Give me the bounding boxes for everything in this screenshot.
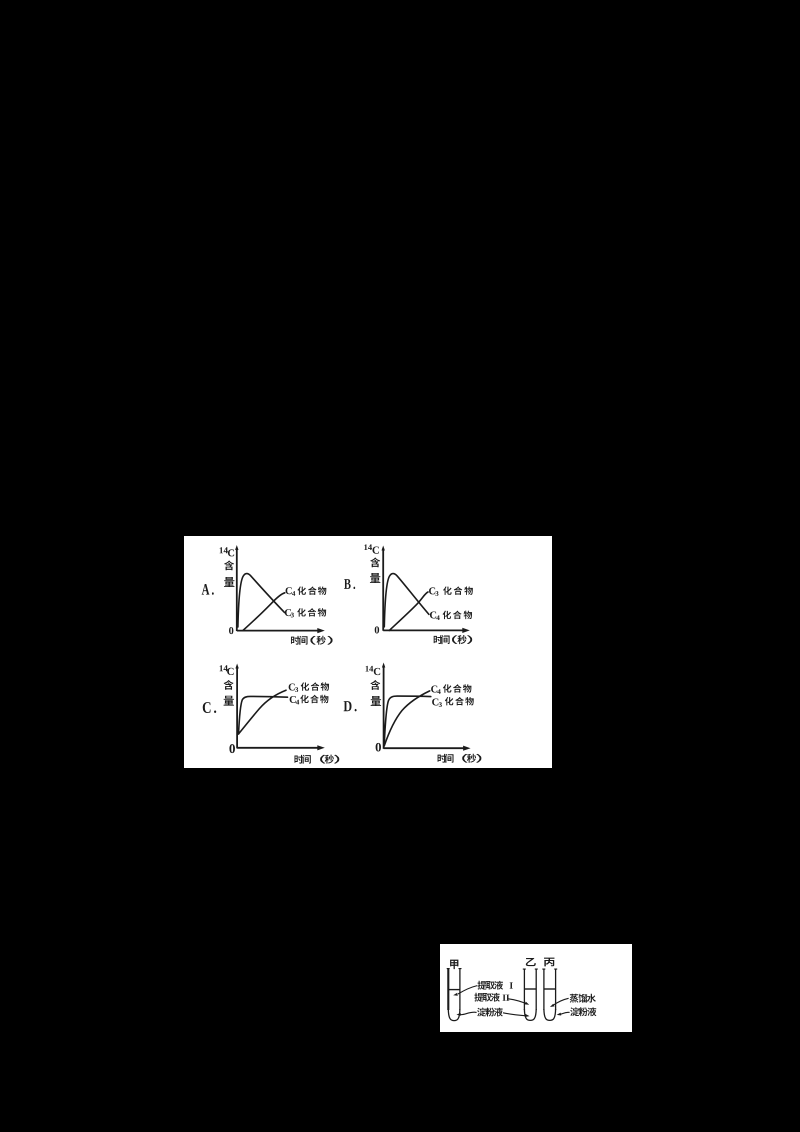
label 淀粉液 middle	[477, 1008, 503, 1017]
graph C y-axis title hanzi 量	[224, 696, 234, 706]
graph D curve label C3化合物	[432, 697, 474, 707]
graph A origin label 0	[229, 627, 233, 634]
graph D y-axis title hanzi 含	[370, 680, 380, 690]
leader line 提取液Ⅰ to tube 甲	[453, 986, 477, 996]
graph A x-axis line with right arrow	[237, 628, 325, 633]
test tube 丙 top rim ticks	[542, 968, 557, 970]
graph A x-axis title 时间（秒）	[291, 636, 333, 645]
leader line 淀粉液 to tube 丙 bottom	[557, 1012, 570, 1015]
graph D y-axis title: superscript 14 C	[366, 666, 381, 675]
white panel: three test tubes 甲乙丙	[440, 944, 632, 1032]
tube 乙 liquid level line	[524, 988, 536, 990]
label 蒸馏水	[570, 994, 596, 1003]
graph A y-axis title hanzi 含	[224, 560, 234, 570]
label 淀粉液 right	[570, 1007, 596, 1016]
graph D C4 compound slow rising curve	[384, 691, 430, 746]
graph C y-axis title: superscript 14 C	[220, 665, 234, 675]
test tube 甲 top rim ticks	[447, 968, 462, 970]
leader line 蒸馏水 to tube 丙	[550, 998, 569, 1007]
graph C curve label C4化合物	[290, 695, 329, 705]
graph B origin label 0	[375, 626, 379, 633]
graph D origin label 0	[376, 743, 381, 752]
graph B x-axis title 时间（秒）	[434, 635, 473, 644]
graph D y-axis title hanzi 量	[371, 696, 381, 706]
graph B x-axis line with right arrow	[383, 628, 470, 633]
tube 甲 liquid level line	[448, 989, 460, 991]
test tube 乙 rounded bottom	[524, 1009, 536, 1020]
graph A y-axis title hanzi 量	[224, 577, 234, 587]
graph B y-axis title hanzi 含	[370, 557, 380, 567]
graph C x-axis line with right arrow	[237, 745, 325, 750]
graph B curve label C4化合物	[430, 611, 472, 620]
graph A curve label C3化合物	[285, 608, 326, 617]
leader line 淀粉液 to tube 甲 bottom	[456, 1012, 476, 1016]
label 提取液Ⅰ	[477, 981, 512, 990]
graph C curve label C3化合物	[289, 682, 329, 692]
graph D x-axis line with right arrow	[384, 746, 471, 751]
graph C C3 compound slow rising curve	[239, 690, 287, 734]
graph B C3 compound rising curve	[389, 592, 428, 630]
graph B y-axis title: superscript 14 C	[364, 544, 379, 553]
graph D C3 compound fast-saturating curve	[384, 696, 431, 745]
test tube 乙 top rim ticks	[523, 968, 538, 970]
option letter D	[344, 701, 357, 711]
graph C C4 compound fast-saturating curve	[239, 696, 288, 734]
graph A y-axis title: superscript 14 C	[220, 547, 235, 556]
graph B curve label C3化合物	[429, 586, 473, 595]
test tube 甲 left wall	[447, 968, 449, 1010]
test tube 丙 left wall	[543, 969, 545, 1010]
leader line 提取液Ⅱ to tube 乙	[508, 999, 529, 1005]
graph C y-axis line with up arrow	[235, 664, 238, 749]
tube label 甲	[450, 960, 458, 970]
graph D curve label C4化合物	[431, 684, 471, 694]
test tube 甲 rounded bottom	[448, 1009, 460, 1021]
graph B y-axis line with up arrow	[382, 546, 385, 631]
graph D x-axis title 时间（秒）	[438, 754, 482, 763]
test tube 丙 rounded bottom	[544, 1009, 556, 1020]
graph C y-axis title hanzi 含	[224, 680, 234, 690]
graph C origin label 0	[229, 744, 235, 753]
white panel: four option graphs A-D	[184, 536, 552, 768]
test tube 乙 right wall	[535, 969, 537, 1010]
graph B C4 compound falling curve	[384, 574, 429, 627]
option letter C	[203, 702, 216, 713]
graph D y-axis line with up arrow	[382, 663, 385, 749]
graph C x-axis title 时间（秒）	[294, 755, 339, 764]
test tube 丙 right wall	[555, 969, 557, 1010]
graph A curve label C4化合物	[286, 586, 327, 595]
graph A C3 compound falling curve	[238, 574, 285, 627]
label 提取液Ⅱ	[474, 993, 509, 1002]
graph A y-axis line with up arrow	[235, 545, 238, 631]
option letter B	[344, 579, 355, 589]
test tube 乙 left wall	[523, 969, 525, 1010]
graph B y-axis title hanzi 量	[370, 573, 380, 583]
tube label 乙	[526, 958, 536, 966]
tube 丙 liquid level line	[544, 988, 556, 990]
tube label 丙	[544, 958, 554, 967]
graph A C4 compound rising curve	[243, 593, 285, 631]
option letter A	[202, 584, 214, 595]
leader line 淀粉液 to tube 乙 bottom	[503, 1013, 530, 1017]
test tube 甲 right wall	[459, 968, 461, 1010]
